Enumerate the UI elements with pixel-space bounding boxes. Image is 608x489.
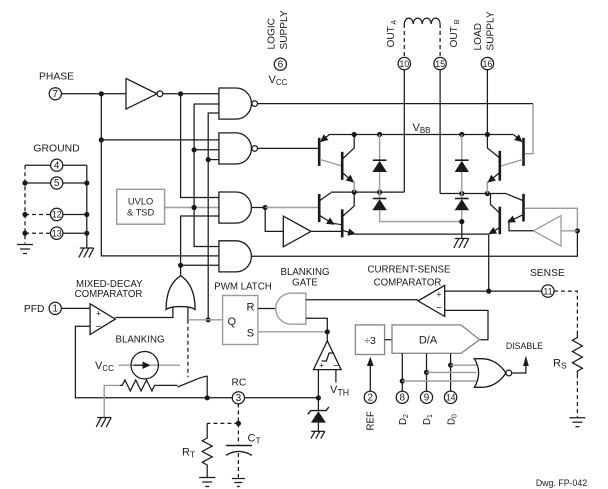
node phase to NAND2 [99, 137, 104, 142]
wire D1 to NOR gray [427, 371, 477, 373]
ground chassis bridge [454, 239, 469, 249]
pin 2 (REF) [364, 391, 376, 403]
wire latch S input gray [258, 331, 327, 333]
wire pin1 to comparator [61, 307, 90, 309]
svg-text:PHASE: PHASE [39, 71, 74, 82]
svg-text:4: 4 [54, 160, 60, 171]
buffer right driver [509, 216, 577, 247]
diode D4 flyback B lower [455, 194, 469, 222]
node OR out to AND4 [178, 263, 183, 268]
node D2 nor tap [400, 378, 405, 383]
wire DA bit1 stub [426, 353, 428, 391]
svg-text:÷3: ÷3 [364, 335, 376, 347]
pin 8 (D2) [396, 391, 408, 403]
label MIXED-DECAY COMPARATOR [75, 279, 144, 300]
svg-text:+: + [436, 290, 441, 300]
svg-text:CURRENT-SENSE: CURRENT-SENSE [368, 265, 451, 276]
wire sink emitter rail [355, 233, 489, 235]
wire DA bit0 stub [450, 353, 452, 391]
wire AND3 junction to left driver [265, 208, 283, 232]
node OUTB right diode mid [459, 191, 464, 196]
svg-text:D/A: D/A [419, 335, 438, 347]
wire to RT dashed [207, 422, 238, 424]
wire v5 latch Q bus [208, 113, 219, 320]
wire OR out to AND4 input [181, 264, 219, 266]
wire comparator minus to DA [445, 310, 488, 339]
node gnd right pin5 [84, 180, 89, 185]
wire OR right input from Q line [187, 307, 189, 320]
wire decay control dashed [187, 320, 189, 377]
wire REF arrow to div3 [369, 365, 371, 392]
wire comparator plus to sense [445, 290, 542, 292]
wire AND3 output [252, 207, 265, 209]
ground chassis right [79, 248, 94, 258]
wire schmitt output [326, 332, 328, 341]
svg-text:10: 10 [399, 59, 409, 69]
node inverter out junction [178, 91, 183, 96]
pin 4 (GROUND) [51, 159, 63, 171]
svg-text:PFD: PFD [24, 304, 45, 315]
node RC switch junction [205, 395, 210, 400]
pin 9 (D1) [420, 391, 432, 403]
wire D0 to NOR gray [451, 364, 478, 366]
svg-text:2: 2 [368, 393, 374, 404]
node schmitt RC junction [316, 395, 321, 400]
wire DA bit2 stub [401, 353, 403, 391]
wire v5 to NAND2 input [208, 159, 219, 161]
dac D/A converter [392, 325, 480, 353]
schmitt trigger oscillator [314, 341, 342, 372]
AND gate G4 [219, 241, 252, 272]
box UVLO and TSD [117, 189, 165, 224]
box divide by 3 [355, 325, 384, 355]
node RT CT junction [236, 421, 241, 426]
ground earth RT [199, 478, 215, 487]
wire v1b OR output to AND3 lower input [181, 216, 219, 265]
wire resistor left lead gray [104, 385, 120, 417]
wire v1a inverted phase to AND3 [181, 94, 219, 198]
wire phase input [61, 93, 126, 95]
node gnd right pin13 [84, 231, 89, 236]
or-gate mixed decay OR [166, 276, 195, 310]
ground earth left [17, 245, 33, 254]
node v3 to NAND2 [192, 147, 197, 152]
pin 13 (GROUND) [51, 227, 63, 239]
pin 3 (RC) [232, 392, 244, 404]
label LOGIC SUPPLY [267, 10, 291, 49]
pin 6 (VCC) [274, 58, 286, 70]
svg-text:1: 1 [52, 304, 58, 315]
pin 7 (PHASE) [49, 88, 61, 100]
wire NOR output to DISABLE arrow [512, 365, 526, 374]
AND gate G3 [219, 192, 252, 223]
wire blanking gate input2 [306, 318, 327, 332]
and-gate blanking gate [276, 293, 306, 324]
wire v3 UVLO bus [194, 104, 219, 247]
wire schmitt minus stub [335, 370, 337, 383]
wire NAND1 to Q5 base gray [525, 104, 533, 154]
wire pin15 to OUT B node [439, 70, 441, 194]
current source blanking [131, 352, 158, 379]
wire coil to pin15 dashed [439, 24, 441, 58]
svg-text:LOAD: LOAD [473, 23, 484, 51]
svg-text:SUPPLY: SUPPLY [486, 11, 497, 50]
node gnd right pin12 [84, 212, 89, 217]
switch decay mode [157, 376, 207, 398]
svg-text:REF: REF [366, 411, 377, 430]
svg-text:7: 7 [53, 89, 59, 100]
inductor load coil [404, 18, 440, 24]
svg-text:3: 3 [236, 393, 242, 404]
wire comparator feedback to RC [75, 326, 207, 398]
svg-text:13: 13 [52, 228, 62, 238]
transistor Q1 source A outer [319, 135, 342, 167]
wire ground right vertical [86, 165, 88, 248]
svg-text:15: 15 [435, 59, 445, 69]
label BLANKING GATE [281, 267, 330, 289]
pin 1 (PFD) [49, 302, 61, 314]
wire pin12 left dashed [25, 214, 51, 216]
svg-text:S: S [247, 328, 254, 340]
wire phase to NAND2 input [101, 139, 219, 141]
capacitor CT [226, 423, 252, 477]
wire pin16 to VBB rail [486, 70, 488, 135]
resistor RS [572, 335, 582, 375]
svg-text:SUPPLY: SUPPLY [279, 10, 290, 49]
node D0 nor tap [448, 363, 453, 368]
node VBB T2 collector [352, 132, 357, 137]
wire blanking gate input1 from comparator [306, 299, 418, 301]
wire RC dot to pin3 [207, 397, 232, 399]
wire OR output up [180, 265, 182, 275]
pin 14 (D0) [444, 391, 456, 403]
op-amp mixed-decay comparator [90, 304, 115, 335]
node VBB right diode [459, 132, 464, 137]
svg-text:BLANKING: BLANKING [281, 267, 330, 278]
wire pin12 right [63, 214, 87, 216]
wire latch Q output [188, 319, 223, 321]
transistor Q5 source B outer [501, 135, 524, 167]
node gnd left pin5 [22, 180, 27, 185]
ground earth CT [232, 479, 245, 487]
NAND gate G2 [219, 133, 258, 164]
svg-text:+: + [96, 309, 101, 319]
latch PWM latch box [223, 296, 258, 345]
wire phase vertical bus [101, 94, 219, 256]
wire schmitt plus input [317, 370, 319, 398]
node right driver input [575, 228, 580, 233]
node v5 to latch Q line [206, 317, 211, 322]
nor-gate disable NOR [474, 359, 511, 388]
diode D2 flyback A lower [372, 192, 461, 222]
op-amp current sense comparator [418, 285, 445, 316]
pin 5 (GROUND) [51, 177, 63, 189]
svg-text:DISABLE: DISABLE [506, 341, 543, 351]
transistor Q3 sink A driver [319, 193, 342, 225]
resistor RT [202, 423, 212, 477]
NAND gate G1 [219, 88, 258, 119]
wire latch R input [258, 308, 276, 310]
node gnd left pin12 [22, 212, 27, 217]
wire NAND1 output to right bridge [258, 103, 534, 105]
svg-text:12: 12 [52, 210, 62, 220]
svg-text:9: 9 [424, 393, 430, 404]
transistor Q8 sink B driver [507, 194, 578, 229]
pin 16 (LOAD SUPPLY) [481, 57, 493, 69]
wire RC line pin3 to schmitt [244, 397, 318, 399]
diode D1 flyback A upper [372, 135, 386, 193]
svg-text:LOGIC: LOGIC [267, 18, 278, 49]
svg-text:Dwg. FP-042: Dwg. FP-042 [536, 478, 587, 488]
wire OUT A rail [331, 191, 404, 193]
wire inverter output to NAND1 [163, 93, 219, 95]
wire coil to pin10 dashed [403, 24, 405, 58]
node gnd left pin13 [22, 231, 27, 236]
ground earth RS [569, 418, 585, 427]
wire diode return to ground [461, 222, 463, 239]
wire pin4 right [62, 164, 86, 166]
wire D2 to NOR gray [402, 380, 477, 382]
ground chassis blanking [96, 418, 111, 428]
buffer left driver [283, 216, 342, 247]
wire pin4 left [25, 164, 51, 166]
svg-text:Q: Q [228, 316, 237, 328]
svg-text:14: 14 [446, 393, 456, 403]
wire VBB rail [329, 134, 513, 136]
node S schmitt junction [325, 329, 330, 334]
wire OUT B rail [440, 193, 507, 195]
node UVLO bus junction [192, 205, 197, 210]
svg-text:& TSD: & TSD [127, 208, 154, 218]
pin 12 (GROUND) [51, 208, 63, 220]
node OUTB T6 emitter [485, 191, 490, 196]
ground chassis zener [311, 431, 325, 438]
node VBB left diode [377, 132, 382, 137]
wire pin10 to OUT A node [403, 70, 405, 193]
transistor Q7 sink B output [490, 194, 500, 235]
svg-text:PWM LATCH: PWM LATCH [214, 282, 271, 293]
svg-text:16: 16 [483, 59, 493, 69]
svg-text:COMPARATOR: COMPARATOR [75, 289, 143, 300]
svg-text:SENSE: SENSE [530, 268, 565, 279]
wire pin13 left dashed [25, 232, 51, 234]
svg-text:RC: RC [232, 377, 247, 388]
diode zener VTH [308, 398, 329, 432]
wire AND3 to T3 base gray [265, 207, 318, 209]
wire AND4 output to right driver [252, 231, 578, 256]
pin 10 (OUT A) [398, 57, 410, 69]
wire comparator output left [417, 299, 419, 301]
node phase junction [99, 91, 104, 96]
node OUTA T2 emitter [352, 190, 357, 195]
label CURRENT-SENSE COMPARATOR [368, 265, 451, 289]
diode D3 flyback B upper [455, 135, 469, 194]
svg-text:−: − [436, 303, 442, 314]
wire pin13 right [63, 232, 87, 234]
svg-text:11: 11 [543, 286, 552, 296]
svg-text:BLANKING: BLANKING [116, 335, 165, 346]
node OUTA left diode mid [377, 190, 382, 195]
svg-text:R: R [247, 302, 255, 314]
node v5 to NAND2 [206, 157, 211, 162]
svg-text:COMPARATOR: COMPARATOR [374, 278, 442, 289]
node AND3 output junction [263, 205, 268, 210]
node D1 nor tap [424, 370, 429, 375]
wire UVLO output [165, 207, 219, 209]
wire sense from bridge [488, 234, 490, 291]
inverter U1 [126, 79, 163, 110]
transistor Q6 source B inner [487, 135, 499, 194]
pin 15 (OUT B) [434, 57, 446, 69]
wire NAND2 output to T1 base [258, 147, 319, 149]
resistor blanking [120, 380, 157, 391]
node VBB pin16 [485, 132, 490, 137]
wire RS to ground dashed [576, 374, 578, 418]
node sense junction [486, 289, 491, 294]
svg-text:GROUND: GROUND [33, 143, 79, 154]
svg-text:GATE: GATE [292, 278, 318, 289]
wire pin11 to RS dashed [554, 291, 578, 334]
svg-text:UVLO: UVLO [128, 197, 153, 207]
wire VCC to current source gray [119, 364, 181, 366]
wire pin3 down dashed [237, 404, 239, 424]
wire div3 to DA [385, 339, 392, 341]
svg-text:−: − [96, 321, 102, 332]
svg-text:8: 8 [400, 393, 406, 404]
transistor Q2 source A inner [342, 135, 354, 193]
label LOAD SUPPLY [473, 11, 497, 50]
svg-text:5: 5 [54, 178, 60, 189]
pin 11 (SENSE) [542, 285, 554, 297]
svg-text:6: 6 [278, 59, 284, 70]
wire pin5 right [62, 182, 86, 184]
node diode return [459, 219, 464, 224]
transistor Q4 sink A output [342, 192, 354, 237]
wire ground left vertical dashed [24, 165, 26, 243]
wire pin5 left [25, 182, 51, 184]
wire comparator output to OR gate [115, 307, 173, 318]
wire v3 to NAND2 input [194, 149, 219, 151]
